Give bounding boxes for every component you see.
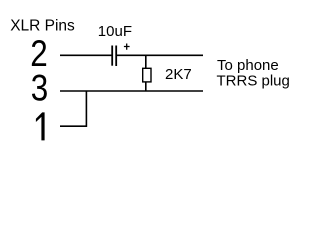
wire: pin 1 stub <box>60 125 87 127</box>
resistor R1 body <box>143 68 151 82</box>
wire: pin 1 up to pin 3 wire <box>85 91 87 127</box>
wire: pin 2 to capacitor left plate <box>60 54 112 56</box>
wire: junction down to resistor top <box>145 55 147 68</box>
svg-text:To phone: To phone <box>217 57 279 74</box>
svg-text:3: 3 <box>31 68 48 109</box>
svg-text:TRRS plug: TRRS plug <box>217 73 290 90</box>
svg-text:XLR Pins: XLR Pins <box>10 18 75 35</box>
wire: pin 3 to output sleeve <box>60 90 203 92</box>
capacitor C1 right plate <box>115 46 117 67</box>
wire: resistor bottom to ground wire <box>145 82 147 91</box>
pin 1 label <box>36 112 45 140</box>
svg-text:10uF: 10uF <box>98 23 132 40</box>
capacitor C1 left plate <box>111 46 113 66</box>
capacitor polarity plus sign <box>124 44 130 50</box>
wire: capacitor right plate to output tip <box>117 54 203 56</box>
svg-text:2K7: 2K7 <box>165 66 192 83</box>
